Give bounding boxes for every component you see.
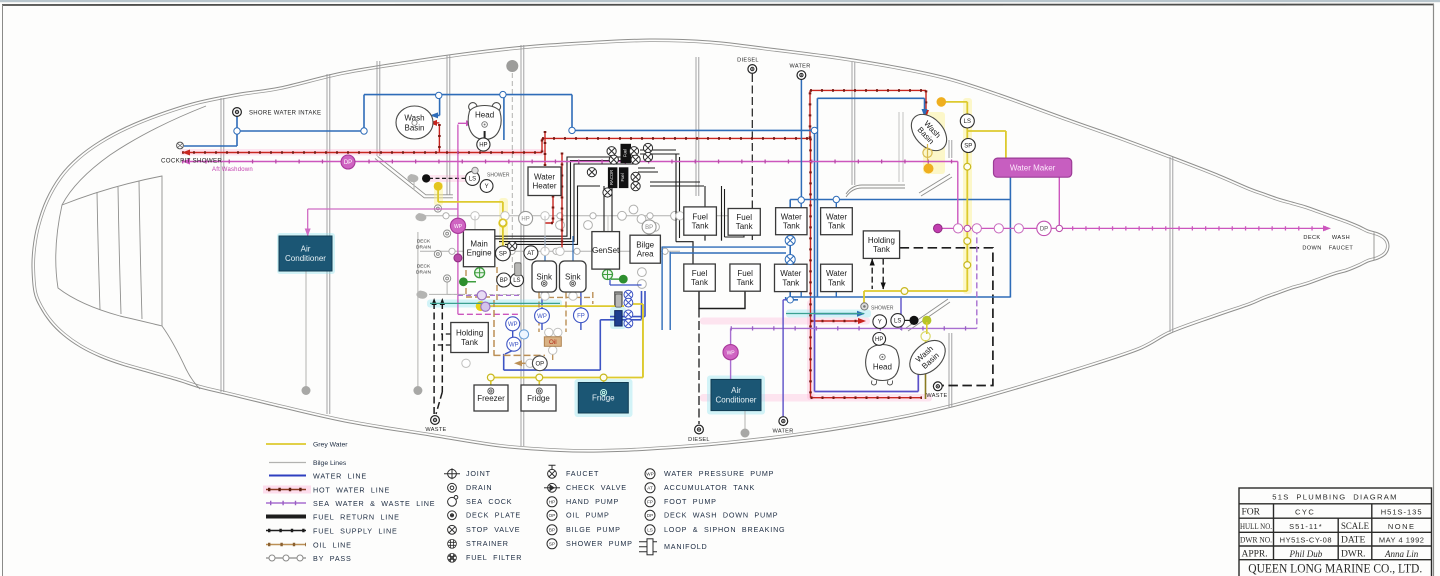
svg-text:Water: Water (826, 269, 847, 278)
legend DRAIN (448, 483, 457, 492)
svg-text:SHOWER: SHOWER (871, 306, 894, 312)
svg-text:Fuel: Fuel (623, 149, 628, 157)
aft AC sea water riser (730, 328, 732, 379)
svg-text:DP: DP (647, 513, 653, 518)
water tank 4 (821, 264, 853, 291)
svg-text:DRAIN: DRAIN (466, 483, 492, 492)
aft sea water run (731, 327, 977, 329)
scupper blobs (415, 213, 427, 299)
water main fwd (237, 130, 364, 132)
oil tank (544, 337, 561, 347)
scupper stem (413, 181, 415, 190)
svg-text:BP: BP (500, 278, 508, 284)
bilge pump mid (497, 273, 511, 287)
svg-text:Holding: Holding (868, 236, 895, 245)
svg-text:WP: WP (646, 472, 653, 477)
waste deck fitting aft (926, 382, 947, 399)
shower pump mid (496, 246, 511, 261)
svg-text:CYC: CYC (1295, 508, 1315, 517)
svg-text:Air: Air (731, 386, 741, 395)
svg-text:Bilge: Bilge (636, 240, 654, 249)
water mid run (572, 129, 815, 131)
svg-text:Air: Air (301, 245, 311, 254)
shower drain aft (861, 303, 894, 312)
legend STOP VALVE (448, 525, 457, 534)
legend WATER PRESSURE PUMP (645, 469, 655, 479)
grey water collector (481, 304, 643, 378)
legend DECK PLATE (448, 511, 457, 520)
hot water heater drop dots (544, 131, 547, 166)
water maker brine drop (1058, 178, 1060, 229)
svg-text:Conditioner: Conditioner (716, 395, 757, 404)
svg-text:Oil: Oil (549, 339, 557, 346)
water deck fitting aft (772, 417, 793, 435)
legend LOOP &amp; SIPHON BREAKING (645, 525, 655, 535)
svg-text:ACCUMULATOR TANK: ACCUMULATOR TANK (664, 483, 755, 492)
cockpit well outline (378, 156, 453, 195)
hot water aft head loop dots (811, 396, 923, 399)
svg-text:Aft Washdown: Aft Washdown (212, 167, 253, 173)
water deck fill leg (783, 299, 790, 301)
green dot 1 (459, 277, 468, 286)
svg-text:GenSet: GenSet (592, 246, 620, 255)
svg-text:SP: SP (549, 542, 555, 547)
accumulator tank (524, 246, 538, 260)
svg-text:AT: AT (647, 486, 653, 491)
svg-text:Fuel: Fuel (692, 212, 708, 221)
bulkhead frame x=697 (695, 57, 697, 196)
hot water heater out (556, 153, 562, 251)
hot water main run fwd dots (182, 151, 542, 154)
water tank manifold left (786, 200, 798, 300)
fuel lines racor to risers (638, 150, 704, 186)
svg-text:OIL LINE: OIL LINE (313, 541, 352, 550)
genset raw water green (608, 269, 621, 279)
svg-text:WASTE: WASTE (425, 427, 446, 433)
deck wash pump fwd (341, 155, 355, 169)
mast base dot (506, 60, 518, 72)
svg-text:DWR NO.: DWR NO. (1240, 535, 1272, 545)
water aft riser pair (815, 98, 818, 313)
svg-text:Head: Head (475, 111, 494, 120)
svg-text:Y: Y (878, 320, 882, 326)
svg-text:MAY 4 1992: MAY 4 1992 (1379, 536, 1425, 545)
misc cluster circles (462, 212, 744, 368)
green strainer 2 (603, 270, 613, 280)
hull inner sheer line (35, 42, 1387, 450)
hull outer edge (32, 39, 1389, 452)
shower drain fwd (472, 167, 510, 178)
oil line sink drains (539, 292, 593, 332)
bilge manifold circles (556, 205, 680, 288)
svg-text:SP: SP (964, 144, 972, 150)
water pressure pump magenta fwd (450, 218, 465, 233)
water cockpit shower feed (184, 145, 237, 147)
fuel riser 2 (704, 186, 706, 241)
svg-text:Water Maker: Water Maker (1010, 164, 1056, 173)
hot water heater drop (544, 131, 546, 166)
loop siphon aft chain (960, 114, 974, 128)
svg-text:MANIFOLD: MANIFOLD (664, 542, 708, 551)
engine raw water green (466, 267, 480, 282)
svg-text:OP: OP (535, 361, 544, 367)
hot arrow aft shower (858, 318, 866, 324)
svg-text:FUEL RETURN LINE: FUEL RETURN LINE (313, 513, 400, 522)
deck wash arrow bow (1323, 225, 1331, 231)
svg-text:Water: Water (826, 212, 847, 221)
blue arrow aft shower (857, 311, 865, 317)
svg-text:STRAINER: STRAINER (466, 539, 509, 548)
svg-text:DECK: DECK (1303, 235, 1320, 241)
svg-text:LS: LS (513, 278, 520, 284)
legend water line (269, 475, 306, 477)
svg-text:DRAIN: DRAIN (416, 270, 431, 276)
magenta check valve (454, 254, 462, 262)
legend FOOT PUMP (645, 497, 655, 507)
blue manifold bar (615, 311, 622, 326)
fridge 1 (521, 385, 556, 411)
aft grey-water dot (922, 316, 931, 325)
keel drain grey stem (417, 232, 419, 387)
hot water riser basin1 (438, 124, 440, 153)
fuel riser 3 (722, 186, 725, 241)
svg-text:HP: HP (521, 217, 529, 223)
joints on washdown (964, 225, 1062, 231)
water drop basin1 (432, 95, 440, 116)
diesel deck fitting fwd (737, 58, 759, 74)
hand pump aft (873, 333, 886, 346)
oil line vertical (494, 300, 546, 355)
svg-text:DWR.: DWR. (1341, 549, 1366, 559)
green dot 2 (619, 275, 628, 284)
stern transom sweep curve (56, 106, 206, 389)
water tank loop bottom (790, 296, 1010, 298)
water tank stubs (790, 200, 836, 298)
hot water main run fwd (182, 152, 542, 154)
aft washdown long run (182, 161, 958, 163)
svg-text:Basin: Basin (404, 124, 424, 133)
fwd sea water dashes (458, 294, 520, 296)
svg-text:HP: HP (479, 143, 487, 149)
blue joints (234, 91, 840, 303)
sea water ticks aft (731, 326, 977, 330)
water tank feed 2 (670, 252, 786, 330)
y-valve fwd (480, 180, 493, 193)
bulkhead frame x=950 upper (948, 140, 950, 158)
legend BILGE PUMP (547, 525, 557, 535)
fuel return bundle 3 (499, 164, 637, 242)
legend SEA COCK (448, 496, 458, 507)
fuel tank bottoms connector (699, 292, 745, 309)
svg-text:Tank: Tank (461, 338, 479, 347)
svg-text:Anna Lin: Anna Lin (1384, 549, 1419, 559)
svg-text:DECK PLATE: DECK PLATE (466, 511, 521, 520)
legend fuel return line (266, 515, 306, 519)
holding tank fwd (451, 323, 489, 353)
sea water to fwd head (458, 123, 470, 314)
svg-text:SHOWER PUMP: SHOWER PUMP (566, 539, 633, 548)
teal line cluster 2 (786, 313, 864, 315)
svg-text:FOOT PUMP: FOOT PUMP (664, 497, 717, 506)
svg-text:Tank: Tank (873, 245, 891, 254)
fwd chain dot (434, 182, 443, 191)
bulkhead frame x=1171 (1169, 157, 1171, 332)
svg-text:WATER PRESSURE PUMP: WATER PRESSURE PUMP (664, 469, 774, 478)
svg-text:H51S-135: H51S-135 (1381, 508, 1423, 517)
svg-text:Tank: Tank (828, 222, 846, 231)
svg-text:LS: LS (894, 319, 901, 325)
bulkhead frame x=853 (851, 62, 853, 185)
svg-text:FP: FP (647, 500, 653, 505)
aft basin olive drain (925, 374, 927, 399)
svg-text:BP: BP (645, 225, 653, 231)
svg-text:Fridge: Fridge (527, 394, 550, 403)
water top aft loop (817, 98, 924, 114)
aft shower cold feed (815, 313, 862, 315)
hot water loop to basin2 (810, 90, 926, 138)
legend fuel supply line (266, 530, 306, 532)
svg-text:DP: DP (344, 160, 352, 166)
blue arrow into basin1 (430, 112, 438, 118)
strainer blue (519, 330, 528, 339)
svg-text:Sink: Sink (565, 272, 582, 281)
svg-text:Fuel: Fuel (692, 269, 708, 278)
svg-text:Tank: Tank (828, 278, 846, 287)
bilge line main horizontal (420, 215, 745, 217)
svg-text:Grey Water: Grey Water (313, 442, 348, 449)
svg-text:DECK: DECK (417, 239, 431, 245)
bilge line joints (443, 213, 713, 255)
water top run (364, 94, 572, 96)
water tank loop top (790, 199, 1010, 201)
svg-text:WASTE: WASTE (926, 393, 947, 399)
legend JOINT (444, 468, 460, 479)
stern panel divider 2 (118, 187, 121, 314)
sea water cluster run (458, 313, 520, 315)
svg-text:CHECK VALVE: CHECK VALVE (566, 483, 627, 492)
deck wash pump inlet dot (934, 224, 943, 233)
title block (1239, 488, 1432, 576)
svg-text:DIESEL: DIESEL (737, 58, 759, 64)
fuel supply bundle 4 (505, 186, 600, 244)
water pressure pump magenta aft (723, 345, 738, 360)
shower pump aft chain (961, 139, 975, 153)
bulkhead frame x=328 (326, 74, 328, 414)
highlighter glow yellow (963, 98, 972, 294)
svg-text:Bilge Lines: Bilge Lines (313, 460, 347, 467)
grey water basin3 drain (926, 322, 927, 352)
cluster wp chain (505, 292, 581, 354)
svg-text:Tank: Tank (737, 278, 755, 287)
bow transom inner line (1373, 233, 1375, 261)
purple sea cock (477, 291, 486, 300)
waste arrows up (432, 298, 445, 305)
water pressure pump blue 1 (506, 317, 520, 331)
svg-text:Water: Water (780, 269, 801, 278)
svg-text:OIL PUMP: OIL PUMP (566, 511, 610, 520)
legend (263, 442, 785, 564)
hot water riser basin1 dots (438, 124, 441, 153)
bilge dashes detail (447, 293, 520, 295)
y-valve aft (873, 315, 887, 329)
svg-text:Freezer: Freezer (477, 394, 505, 403)
water maker riser (1009, 178, 1011, 298)
engine fuel pair (463, 236, 495, 239)
svg-text:FAUCET: FAUCET (1329, 246, 1354, 252)
water tank 2 (821, 208, 853, 235)
waste deck fitting fwd (425, 416, 446, 433)
water tank stop valves (785, 236, 795, 246)
aft pickup stub (905, 319, 910, 321)
grey drain symbols deck drain (434, 205, 450, 282)
oil arrow (514, 360, 522, 366)
svg-text:Phil Dub: Phil Dub (1288, 549, 1322, 559)
washdown riser aft (957, 162, 959, 229)
hand pump grey mid (519, 211, 533, 225)
water tank 1 (776, 208, 807, 235)
hot arrow into basin1 (429, 120, 437, 126)
svg-text:BILGE PUMP: BILGE PUMP (566, 525, 621, 534)
cluster royal blue loop (504, 291, 645, 370)
fuel stop valves (607, 147, 616, 156)
deck wash pump aft (1037, 221, 1051, 235)
stub arrows (870, 259, 886, 290)
border frame left (2, 5, 4, 576)
svg-text:WASH: WASH (1332, 235, 1350, 241)
loop siphon fwd (466, 171, 480, 185)
bilge line second horizontal (420, 250, 680, 252)
manifold stop valves (624, 290, 633, 299)
aft AC drain dot (741, 429, 750, 438)
highlighter glow cyan (707, 376, 765, 415)
legend FUEL FILTER (448, 553, 457, 562)
bulkhead frame x=222 (220, 98, 222, 392)
aft pickup dot (909, 316, 918, 325)
svg-text:BY PASS: BY PASS (313, 554, 352, 563)
genset fuel drop (604, 186, 612, 231)
svg-text:HAND PUMP: HAND PUMP (566, 497, 619, 506)
legend SHOWER PUMP (547, 539, 557, 549)
svg-text:LS: LS (964, 119, 971, 125)
water deck fill drop violet (782, 300, 784, 418)
svg-text:RACOR: RACOR (609, 170, 614, 185)
air conditioner fwd (279, 236, 332, 271)
washdown ticks (182, 160, 958, 164)
aft holding tank waste line (900, 248, 993, 386)
legend DECK WASH DOWN PUMP (645, 510, 655, 520)
water tank feed 1 (662, 247, 786, 331)
svg-text:HP: HP (549, 500, 555, 505)
water tank 3 (775, 264, 808, 291)
water deck fill drop blue (800, 80, 802, 200)
svg-text:JOINT: JOINT (466, 469, 491, 478)
legend STRAINER (448, 539, 457, 548)
svg-text:FOR: FOR (1242, 508, 1261, 518)
svg-text:Tank: Tank (691, 278, 709, 287)
legend MANIFOLD (639, 539, 657, 555)
grey manifold bar (615, 292, 622, 306)
svg-text:HY51S-CY-08: HY51S-CY-08 (1280, 536, 1332, 545)
svg-text:Heater: Heater (532, 182, 556, 191)
sink 1 (532, 261, 557, 292)
svg-text:FP: FP (577, 313, 585, 319)
svg-text:Holding: Holding (456, 329, 483, 338)
fuel tank 4 (730, 264, 760, 291)
svg-text:HULL NO.: HULL NO. (1240, 521, 1272, 531)
genset (592, 232, 620, 270)
sink 2 (560, 261, 587, 292)
freezer (474, 385, 508, 411)
water pressure pump blue 3 (535, 309, 550, 324)
svg-text:Fridge: Fridge (592, 394, 615, 403)
oil pump feed (517, 362, 533, 364)
loop siphon mid (510, 273, 523, 286)
cockpit shower symbol (161, 142, 222, 164)
grey water source dot (476, 301, 486, 311)
border frame right (1433, 4, 1435, 576)
svg-text:Tank: Tank (782, 278, 800, 287)
svg-text:Fuel: Fuel (736, 213, 752, 222)
aft transom step diagonals (919, 174, 950, 193)
loop siphon aft (891, 314, 905, 328)
fridge stubs (491, 378, 604, 391)
sink drains (541, 281, 575, 287)
water rise fwd (363, 95, 365, 131)
cluster blue risers to sinks (545, 236, 573, 261)
legend grey water (266, 443, 306, 445)
bilge line third horizontal (429, 279, 465, 295)
legend FAUCET (548, 465, 557, 478)
bulkhead frame x=448 (446, 55, 448, 195)
grey water aft run (864, 291, 967, 303)
fuel tank 3 (684, 264, 716, 291)
border frame top (2, 4, 1434, 7)
small grey boxes (515, 263, 521, 276)
foot pump (574, 308, 589, 323)
purple valve 2 (457, 256, 459, 258)
shore water intake fitting (233, 108, 322, 117)
stern panel divider 3 (139, 181, 142, 319)
svg-text:SEA COCK: SEA COCK (466, 497, 512, 506)
oil line engine (466, 267, 497, 300)
bilge pump right (642, 220, 656, 234)
svg-text:FAUCET: FAUCET (566, 469, 599, 478)
svg-text:HP: HP (875, 337, 883, 343)
green strainer 1 (475, 268, 485, 278)
svg-text:LS: LS (469, 177, 476, 183)
legend by pass (266, 557, 306, 559)
svg-text:DP: DP (1040, 227, 1048, 233)
chain start dot (937, 97, 947, 107)
svg-text:S51-11*: S51-11* (1289, 522, 1323, 531)
head fwd (468, 103, 501, 142)
hot water aft head loop (811, 397, 923, 399)
purple circle cluster (481, 302, 490, 311)
magenta arrow into head1 (466, 120, 474, 126)
keel drain dot (413, 386, 422, 395)
grey water fwd chain (438, 188, 503, 248)
svg-text:Engine: Engine (467, 249, 492, 258)
svg-text:DECK WASH DOWN PUMP: DECK WASH DOWN PUMP (664, 511, 778, 520)
grey water aft basin chain (944, 102, 967, 291)
air conditioner aft (711, 379, 761, 410)
water deck fitting fwd (789, 64, 810, 80)
bulkhead frame x=378 (376, 61, 378, 156)
fuel to tank3 (676, 242, 693, 264)
waste dashed fwd 1 (433, 302, 435, 416)
mast support dashed (511, 73, 513, 268)
svg-text:SP: SP (499, 252, 507, 258)
